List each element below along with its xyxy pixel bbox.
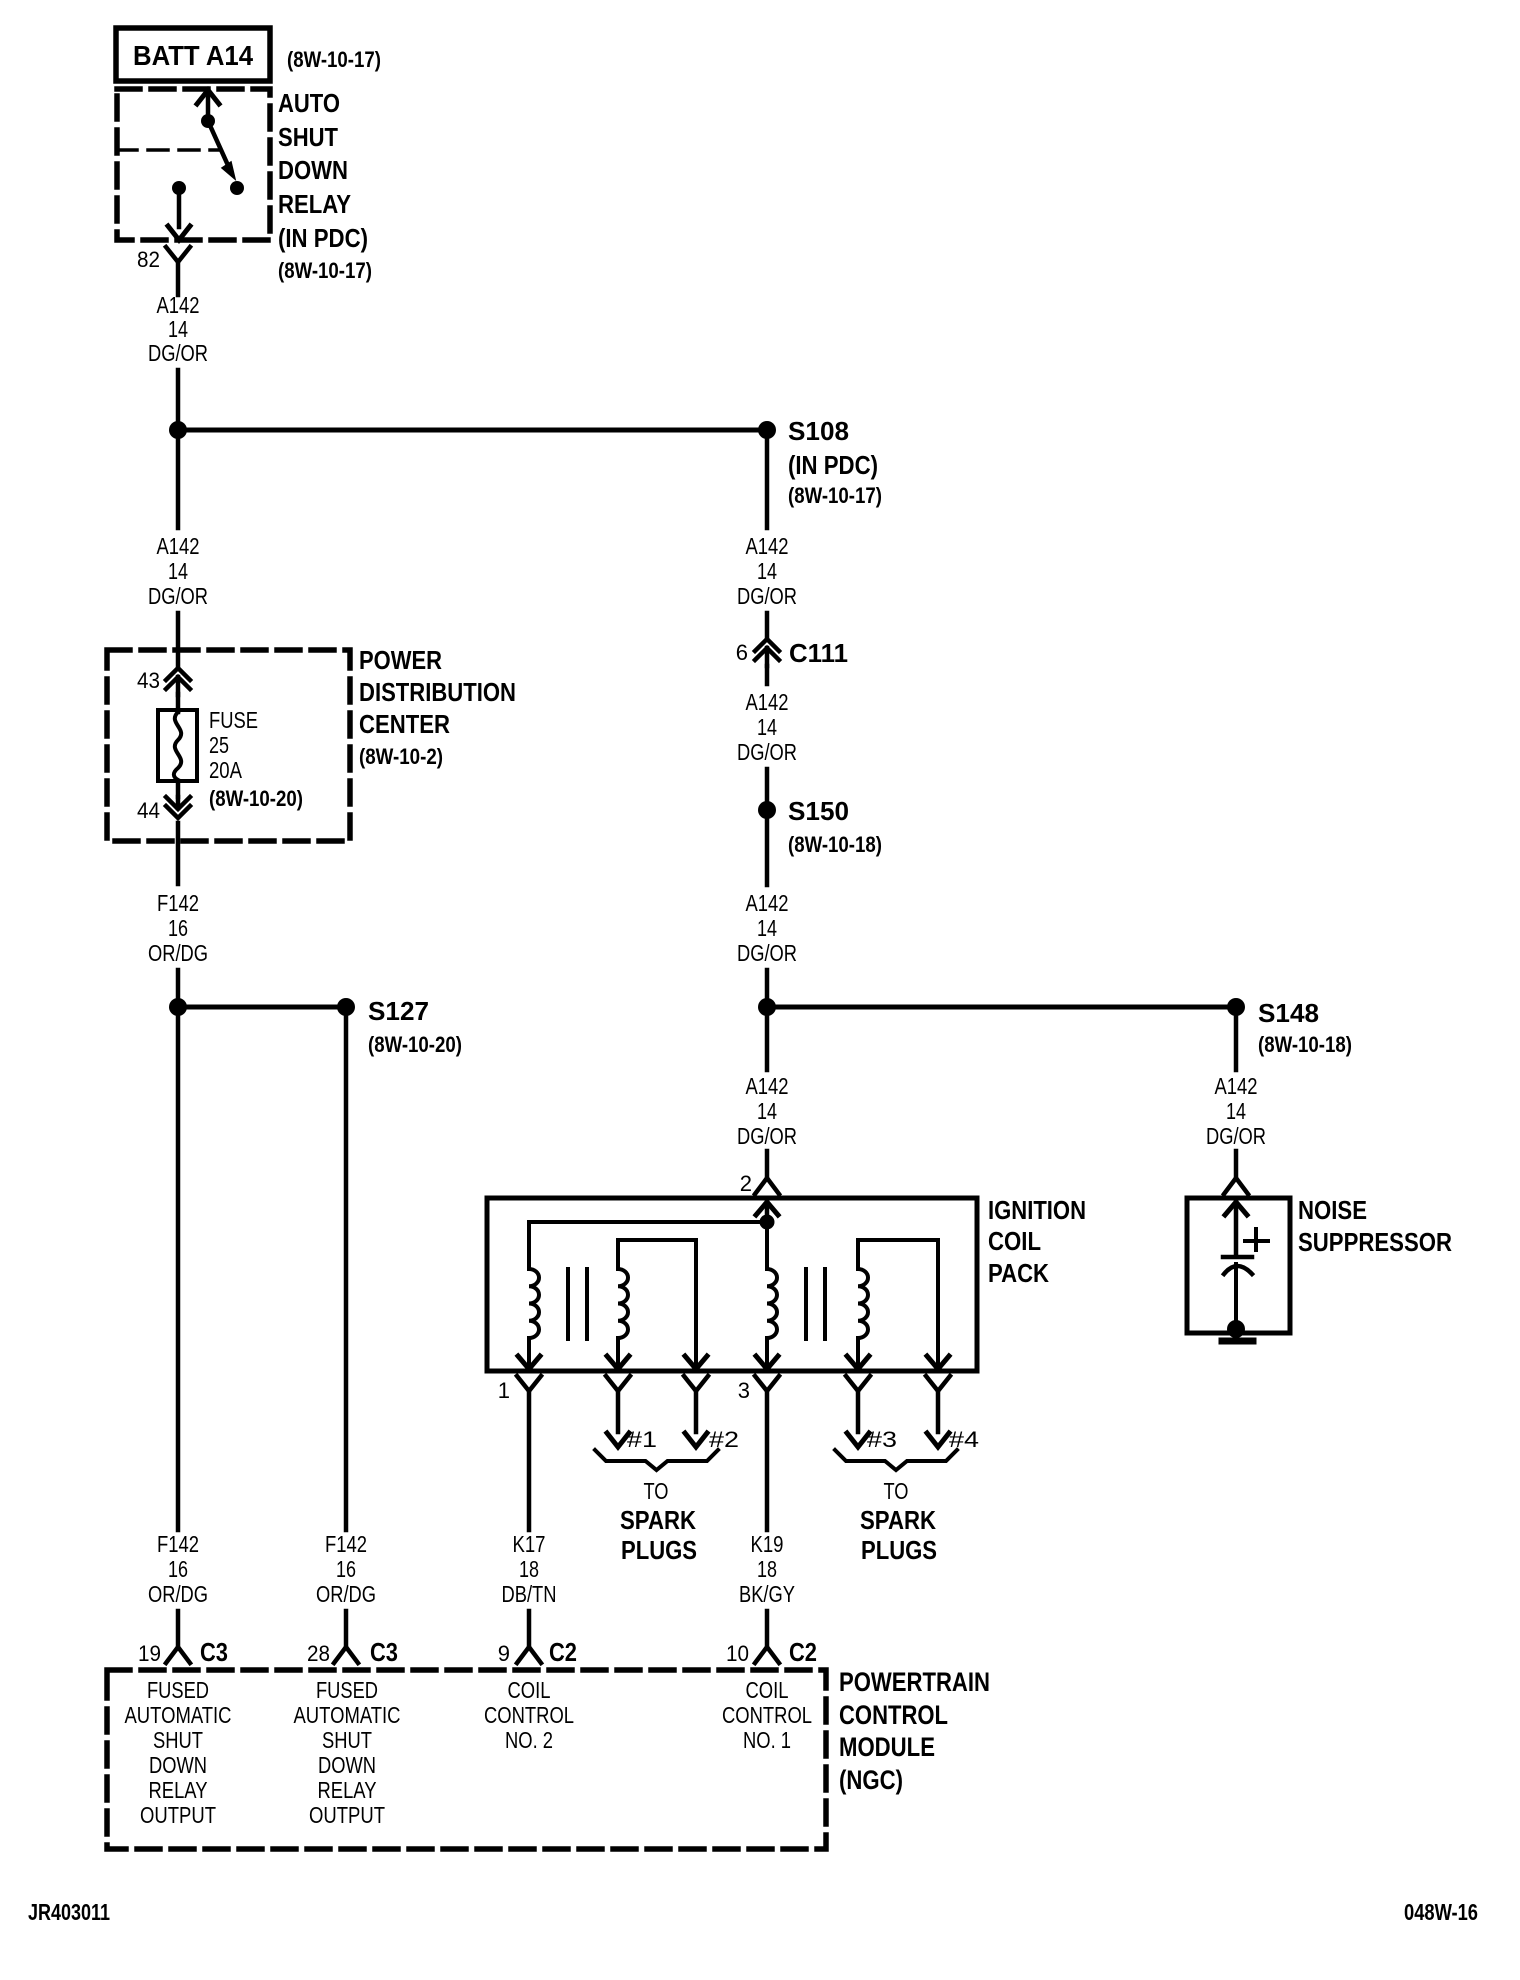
primary winding T1 (coil No.2) [529, 1269, 539, 1338]
svg-text:OUTPUT: OUTPUT [140, 1802, 216, 1828]
svg-text:S150: S150 [788, 796, 849, 826]
svg-text:14: 14 [1226, 1098, 1246, 1124]
svg-text:DG/OR: DG/OR [737, 583, 797, 609]
svg-text:14: 14 [757, 1098, 777, 1124]
svg-text:16: 16 [336, 1556, 356, 1582]
svg-text:NOISE: NOISE [1298, 1195, 1367, 1225]
brace TO SPARK PLUGS left [595, 1450, 718, 1470]
svg-text:COIL: COIL [988, 1226, 1041, 1256]
svg-text:(NGC): (NGC) [839, 1765, 903, 1795]
relay K1 AUTO SHUT DOWN RELAY dashed box (IN PDC) [117, 89, 270, 240]
ignition coil pack box [487, 1198, 977, 1371]
connector pin 44 double chevron [176, 797, 181, 808]
right secondary top link [858, 1238, 938, 1242]
svg-text:#2: #2 [709, 1427, 739, 1452]
svg-text:PACK: PACK [988, 1258, 1049, 1288]
wire A142 below C111 [765, 666, 770, 684]
svg-text:A142: A142 [746, 533, 789, 559]
wire horizontal to S148 [767, 1005, 1236, 1010]
svg-text:A142: A142 [746, 1073, 789, 1099]
svg-text:NO. 2: NO. 2 [505, 1727, 553, 1753]
noise suppressor ground junction dot [1227, 1320, 1245, 1338]
svg-text:MODULE: MODULE [839, 1732, 935, 1762]
svg-text:SUPPRESSOR: SUPPRESSOR [1298, 1227, 1452, 1257]
right primary to pin 3 with arrow [765, 1338, 769, 1366]
svg-text:A142: A142 [157, 292, 200, 318]
svg-text:18: 18 [519, 1556, 539, 1582]
svg-text:OR/DG: OR/DG [316, 1581, 376, 1607]
svg-text:DOWN: DOWN [318, 1752, 376, 1778]
left secondary top link [618, 1238, 696, 1242]
wire right A142 S108 down [765, 430, 770, 528]
junction dot left at S108 tie row [169, 421, 187, 439]
svg-text:(8W-10-2): (8W-10-2) [359, 744, 443, 769]
ground symbol bar [1222, 1338, 1253, 1345]
svg-text:S148: S148 [1258, 998, 1319, 1028]
svg-text:POWERTRAIN: POWERTRAIN [839, 1667, 990, 1697]
fuse element squiggle [174, 712, 181, 780]
svg-text:NO. 1: NO. 1 [743, 1727, 791, 1753]
wire capacitor to ground [1234, 1264, 1238, 1329]
svg-text:BATT A14: BATT A14 [133, 40, 253, 71]
secondary winding T1 [618, 1269, 628, 1338]
fuse 25 20A box [158, 710, 197, 781]
svg-text:14: 14 [757, 714, 777, 740]
relay movable contact dot [201, 114, 215, 128]
svg-text:AUTOMATIC: AUTOMATIC [125, 1702, 232, 1728]
svg-text:C111: C111 [789, 638, 848, 668]
svg-text:28: 28 [307, 1641, 330, 1666]
svg-text:SHUT: SHUT [153, 1727, 203, 1753]
svg-text:6: 6 [736, 640, 748, 665]
capacitor C1 curved plate [1224, 1266, 1252, 1274]
svg-text:A142: A142 [157, 533, 200, 559]
svg-text:43: 43 [137, 668, 160, 693]
svg-text:14: 14 [757, 558, 777, 584]
connector pin 43 double chevron [166, 668, 190, 680]
svg-text:A142: A142 [746, 890, 789, 916]
svg-text:16: 16 [168, 1556, 188, 1582]
svg-text:#4: #4 [949, 1427, 979, 1452]
svg-text:OR/DG: OR/DG [148, 1581, 208, 1607]
svg-text:14: 14 [168, 558, 188, 584]
wire A142 below S150 [765, 810, 770, 885]
svg-text:F142: F142 [325, 1531, 367, 1557]
svg-text:(8W-10-17): (8W-10-17) [788, 483, 882, 508]
wire pin 43 to fuse [176, 694, 181, 712]
wire F142 branch from S127 to C3 pin 28 [344, 1007, 349, 1530]
svg-text:SHUT: SHUT [322, 1727, 372, 1753]
wire left A142 into PDC [176, 613, 181, 668]
svg-text:TO: TO [644, 1478, 669, 1504]
POWER DISTRIBUTION CENTER dashed box [107, 650, 350, 841]
wire A142 horizontal to S108 [178, 428, 767, 433]
svg-text:S108: S108 [788, 416, 849, 446]
svg-text:DOWN: DOWN [278, 155, 348, 185]
junction dot left at S127 row [169, 998, 187, 1016]
left secondary to spark output with arrow [616, 1338, 620, 1366]
svg-text:(8W-10-20): (8W-10-20) [368, 1032, 462, 1057]
svg-text:JR403011: JR403011 [28, 1899, 110, 1925]
svg-text:CONTROL: CONTROL [722, 1702, 812, 1728]
left core lines [566, 1269, 570, 1339]
svg-text:9: 9 [498, 1641, 510, 1666]
svg-text:SPARK: SPARK [620, 1505, 696, 1535]
wire A142 to S150 [765, 769, 770, 810]
right secondary winding leg [856, 1240, 860, 1269]
svg-text:CONTROL: CONTROL [839, 1700, 948, 1730]
svg-text:POWER: POWER [359, 645, 442, 675]
svg-text:10: 10 [726, 1641, 749, 1666]
secondary winding T2 [858, 1269, 868, 1338]
svg-text:A142: A142 [746, 689, 789, 715]
svg-text:82: 82 [137, 247, 160, 272]
svg-text:#3: #3 [867, 1427, 897, 1452]
svg-text:PLUGS: PLUGS [621, 1535, 697, 1565]
wire A142 to C111 [765, 613, 770, 639]
svg-text:(8W-10-20): (8W-10-20) [209, 786, 303, 811]
wire K17 to C2 pin 9 [527, 1611, 532, 1647]
svg-text:BK/GY: BK/GY [739, 1581, 795, 1607]
svg-text:F142: F142 [157, 1531, 199, 1557]
connector pin 82 half below relay [166, 247, 190, 262]
splice S148 dot [1227, 998, 1245, 1016]
capacitor C1 flat plate [1223, 1255, 1252, 1260]
svg-text:IGNITION: IGNITION [988, 1195, 1086, 1225]
connector spark output half x938 [926, 1376, 950, 1391]
wire F142 to C3 pin 19 [176, 1611, 181, 1647]
connector C111 pin 6 double chevron [755, 639, 779, 651]
coil pack pin 2 entry arrow [756, 1202, 778, 1215]
svg-text:SHUT: SHUT [278, 122, 338, 152]
connector spark output half x858 [846, 1376, 870, 1391]
right primary winding feed [765, 1222, 769, 1269]
wire horizontal to S127 [178, 1005, 346, 1010]
svg-text:(8W-10-18): (8W-10-18) [788, 832, 882, 857]
svg-text:RELAY: RELAY [149, 1777, 208, 1803]
junction dot at S148 row [758, 998, 776, 1016]
connector C3 pin 19 half [166, 1647, 190, 1663]
wire A142 to S148 row [765, 970, 770, 1007]
svg-text:DG/OR: DG/OR [1206, 1123, 1266, 1149]
svg-text:25: 25 [209, 732, 229, 758]
spark plug lead arrow #1 [607, 1433, 629, 1447]
svg-text:#1: #1 [627, 1427, 657, 1452]
svg-text:TO: TO [884, 1478, 909, 1504]
svg-text:3: 3 [738, 1378, 750, 1403]
spark plug lead arrow #2 [685, 1433, 707, 1447]
svg-text:(8W-10-18): (8W-10-18) [1258, 1032, 1352, 1057]
svg-text:14: 14 [168, 316, 188, 342]
wire A142 down to noise suppressor [1234, 1007, 1239, 1070]
svg-text:C3: C3 [370, 1637, 398, 1667]
relay output contact dot pin 82 side [172, 181, 186, 195]
svg-text:COIL: COIL [746, 1677, 789, 1703]
svg-text:20A: 20A [209, 757, 243, 783]
right secondary right leg to spark output with arrow [936, 1240, 940, 1366]
svg-text:DOWN: DOWN [149, 1752, 207, 1778]
relay fixed contact dot (NC) [230, 181, 244, 195]
svg-text:DG/OR: DG/OR [737, 739, 797, 765]
svg-text:18: 18 [757, 1556, 777, 1582]
splice S150 dot [758, 801, 776, 819]
svg-text:(IN PDC): (IN PDC) [788, 450, 878, 480]
svg-text:2: 2 [740, 1171, 752, 1196]
svg-text:C3: C3 [200, 1637, 228, 1667]
relay coil-side terminal arrow to BATT [197, 90, 219, 104]
svg-text:FUSED: FUSED [316, 1677, 378, 1703]
svg-text:(8W-10-17): (8W-10-17) [287, 47, 381, 72]
svg-text:C2: C2 [549, 1637, 577, 1667]
left primary winding feed [527, 1222, 531, 1269]
wire K19 to C2 pin 10 [765, 1611, 770, 1647]
svg-text:RELAY: RELAY [278, 189, 351, 219]
svg-text:DG/OR: DG/OR [737, 940, 797, 966]
connector spark output half x618 [606, 1376, 630, 1391]
relay movable arm with arrowhead [208, 121, 231, 172]
wire F142 left long run to C3 pin 19 [176, 1007, 181, 1530]
svg-text:048W-16: 048W-16 [1404, 1899, 1478, 1925]
right core lines [804, 1269, 808, 1339]
wire A142 down to coil pack pin 2 [765, 1007, 770, 1070]
svg-text:AUTO: AUTO [278, 88, 340, 118]
svg-text:DG/OR: DG/OR [737, 1123, 797, 1149]
noise suppressor entry arrow [1225, 1202, 1247, 1215]
svg-text:DISTRIBUTION: DISTRIBUTION [359, 677, 516, 707]
svg-text:(IN PDC): (IN PDC) [278, 223, 368, 253]
wire pin 44 out of PDC [176, 823, 181, 884]
connector pin 2 half at coil pack [755, 1178, 779, 1194]
wire fuse to pin 44 [176, 781, 181, 797]
splice S127 dot [337, 998, 355, 1016]
wire F142 to S127 row [176, 970, 181, 1007]
svg-text:K17: K17 [513, 1531, 546, 1557]
svg-text:K19: K19 [751, 1531, 784, 1557]
connector C2 pin 10 half [755, 1647, 779, 1663]
svg-text:44: 44 [137, 798, 160, 823]
svg-text:CENTER: CENTER [359, 709, 450, 739]
left secondary winding leg [616, 1240, 620, 1269]
POWERTRAIN CONTROL MODULE dashed box [107, 1670, 826, 1849]
relay internal divider dashed line [117, 148, 218, 152]
primary winding T2 (coil No.1) [767, 1269, 777, 1338]
connector spark output half x696 [684, 1376, 708, 1391]
wire F142 to C3 pin 28 [344, 1611, 349, 1647]
coil pack internal bus wire to left primary [529, 1220, 767, 1224]
svg-text:1: 1 [498, 1378, 510, 1403]
svg-text:COIL: COIL [508, 1677, 551, 1703]
right secondary to spark output with arrow [856, 1338, 860, 1366]
connector/junction BATT A14 feed box [116, 28, 270, 81]
svg-text:DG/OR: DG/OR [148, 340, 208, 366]
svg-text:A142: A142 [1215, 1073, 1258, 1099]
svg-text:F142: F142 [157, 890, 199, 916]
svg-text:CONTROL: CONTROL [484, 1702, 574, 1728]
svg-text:S127: S127 [368, 996, 429, 1026]
svg-text:DB/TN: DB/TN [502, 1581, 557, 1607]
connector C2 pin 9 half [517, 1647, 541, 1663]
svg-text:FUSED: FUSED [147, 1677, 209, 1703]
left primary to pin 1 with arrow [527, 1338, 531, 1366]
svg-text:19: 19 [138, 1641, 161, 1666]
connector C3 pin 28 half [334, 1647, 358, 1663]
svg-text:OR/DG: OR/DG [148, 940, 208, 966]
connector pin 3 half below coil pack [755, 1376, 779, 1391]
svg-text:RELAY: RELAY [318, 1777, 377, 1803]
svg-text:OUTPUT: OUTPUT [309, 1802, 385, 1828]
svg-text:14: 14 [757, 915, 777, 941]
wire relay output to pin 82 with arrow [177, 188, 182, 227]
capacitor plus sign [1245, 1239, 1268, 1243]
wire left A142 down from junction [176, 430, 181, 528]
svg-text:16: 16 [168, 915, 188, 941]
svg-text:FUSE: FUSE [209, 707, 258, 733]
spark plug lead arrow #4 [927, 1433, 949, 1447]
svg-text:DG/OR: DG/OR [148, 583, 208, 609]
wire A142 from label to node [176, 370, 181, 430]
connector half at noise suppressor [1224, 1178, 1248, 1194]
svg-text:C2: C2 [789, 1637, 817, 1667]
svg-text:SPARK: SPARK [860, 1505, 936, 1535]
noise suppressor box [1187, 1198, 1290, 1333]
left secondary right leg to spark output with arrow [694, 1240, 698, 1366]
splice S108 dot [758, 421, 776, 439]
svg-text:PLUGS: PLUGS [861, 1535, 937, 1565]
spark plug lead arrow #3 [847, 1433, 869, 1447]
connector pin 1 half below coil pack [517, 1376, 541, 1391]
wire A142 to pin 2 connector [765, 1151, 770, 1178]
svg-text:AUTOMATIC: AUTOMATIC [294, 1702, 401, 1728]
svg-text:(8W-10-17): (8W-10-17) [278, 258, 372, 283]
coil pack internal junction dot [760, 1215, 775, 1230]
brace TO SPARK PLUGS right [835, 1450, 957, 1470]
wire A142 to noise suppressor connector [1234, 1151, 1239, 1178]
